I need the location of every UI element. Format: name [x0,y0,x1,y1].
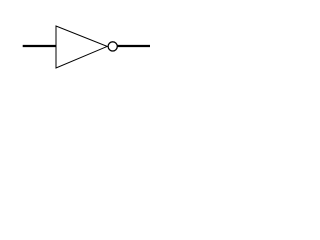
inversion bubble [108,42,117,51]
inverter U1 triangle [56,26,107,68]
input wire [23,45,56,47]
output wire [117,45,150,47]
